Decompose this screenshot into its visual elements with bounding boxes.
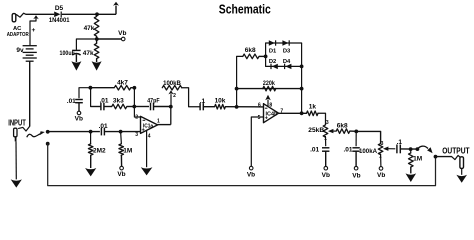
svg-text:2: 2 [173,93,176,99]
svg-text:4k7: 4k7 [117,79,128,86]
svg-text:1: 1 [157,118,160,124]
svg-text:25kB: 25kB [308,127,324,134]
svg-text:3: 3 [135,132,138,138]
svg-text:D1: D1 [269,48,277,54]
svg-text:+: + [142,127,146,133]
svg-text:1N4001: 1N4001 [49,17,70,24]
svg-text:Vb: Vb [352,172,360,179]
svg-text:1M: 1M [123,147,132,154]
svg-text:Vb: Vb [247,171,255,178]
svg-text:D2: D2 [269,59,276,65]
svg-text:2M2: 2M2 [93,147,106,154]
svg-text:1M: 1M [413,155,422,162]
svg-text:D4: D4 [283,59,291,65]
svg-text:4: 4 [148,133,151,139]
svg-text:6k8: 6k8 [337,122,348,129]
svg-text:6k8: 6k8 [245,47,256,54]
svg-text:.01: .01 [343,147,352,154]
svg-text:OUTPUT: OUTPUT [442,146,469,155]
svg-text:8: 8 [269,103,272,109]
svg-text:Vb: Vb [118,30,126,37]
svg-text:Vb: Vb [377,172,385,179]
svg-text:.1: .1 [397,139,403,146]
svg-text:9v: 9v [16,47,24,54]
svg-text:Schematic: Schematic [219,2,271,17]
svg-text:1k: 1k [309,104,317,111]
svg-text:Vb: Vb [322,172,330,179]
svg-text:INPUT: INPUT [8,118,26,127]
svg-text:Vb: Vb [117,171,125,178]
svg-text:5: 5 [258,115,261,121]
svg-text:100kB: 100kB [163,80,181,87]
svg-text:3: 3 [381,141,384,147]
svg-text:100uF: 100uF [60,50,75,57]
svg-text:47pF: 47pF [147,97,159,104]
svg-text:2: 2 [135,115,138,121]
svg-text:10k: 10k [215,98,226,105]
svg-text:100kA: 100kA [359,148,377,155]
svg-text:.01: .01 [99,123,108,130]
svg-text:3k3: 3k3 [113,97,124,104]
svg-text:+: + [31,27,35,34]
svg-text:.01: .01 [310,147,319,154]
svg-text:Vb: Vb [75,116,83,123]
svg-text:220k: 220k [263,80,275,87]
svg-text:D5: D5 [55,5,64,12]
svg-text:47k: 47k [83,50,94,57]
svg-text:ADAPTOR: ADAPTOR [7,32,29,38]
svg-text:.01: .01 [99,97,108,104]
svg-text:6: 6 [258,103,261,109]
svg-text:.01: .01 [67,98,76,105]
svg-text:.1: .1 [200,98,206,105]
svg-text:D3: D3 [283,48,291,54]
svg-text:3: 3 [326,120,329,126]
svg-text:47k: 47k [84,25,95,32]
